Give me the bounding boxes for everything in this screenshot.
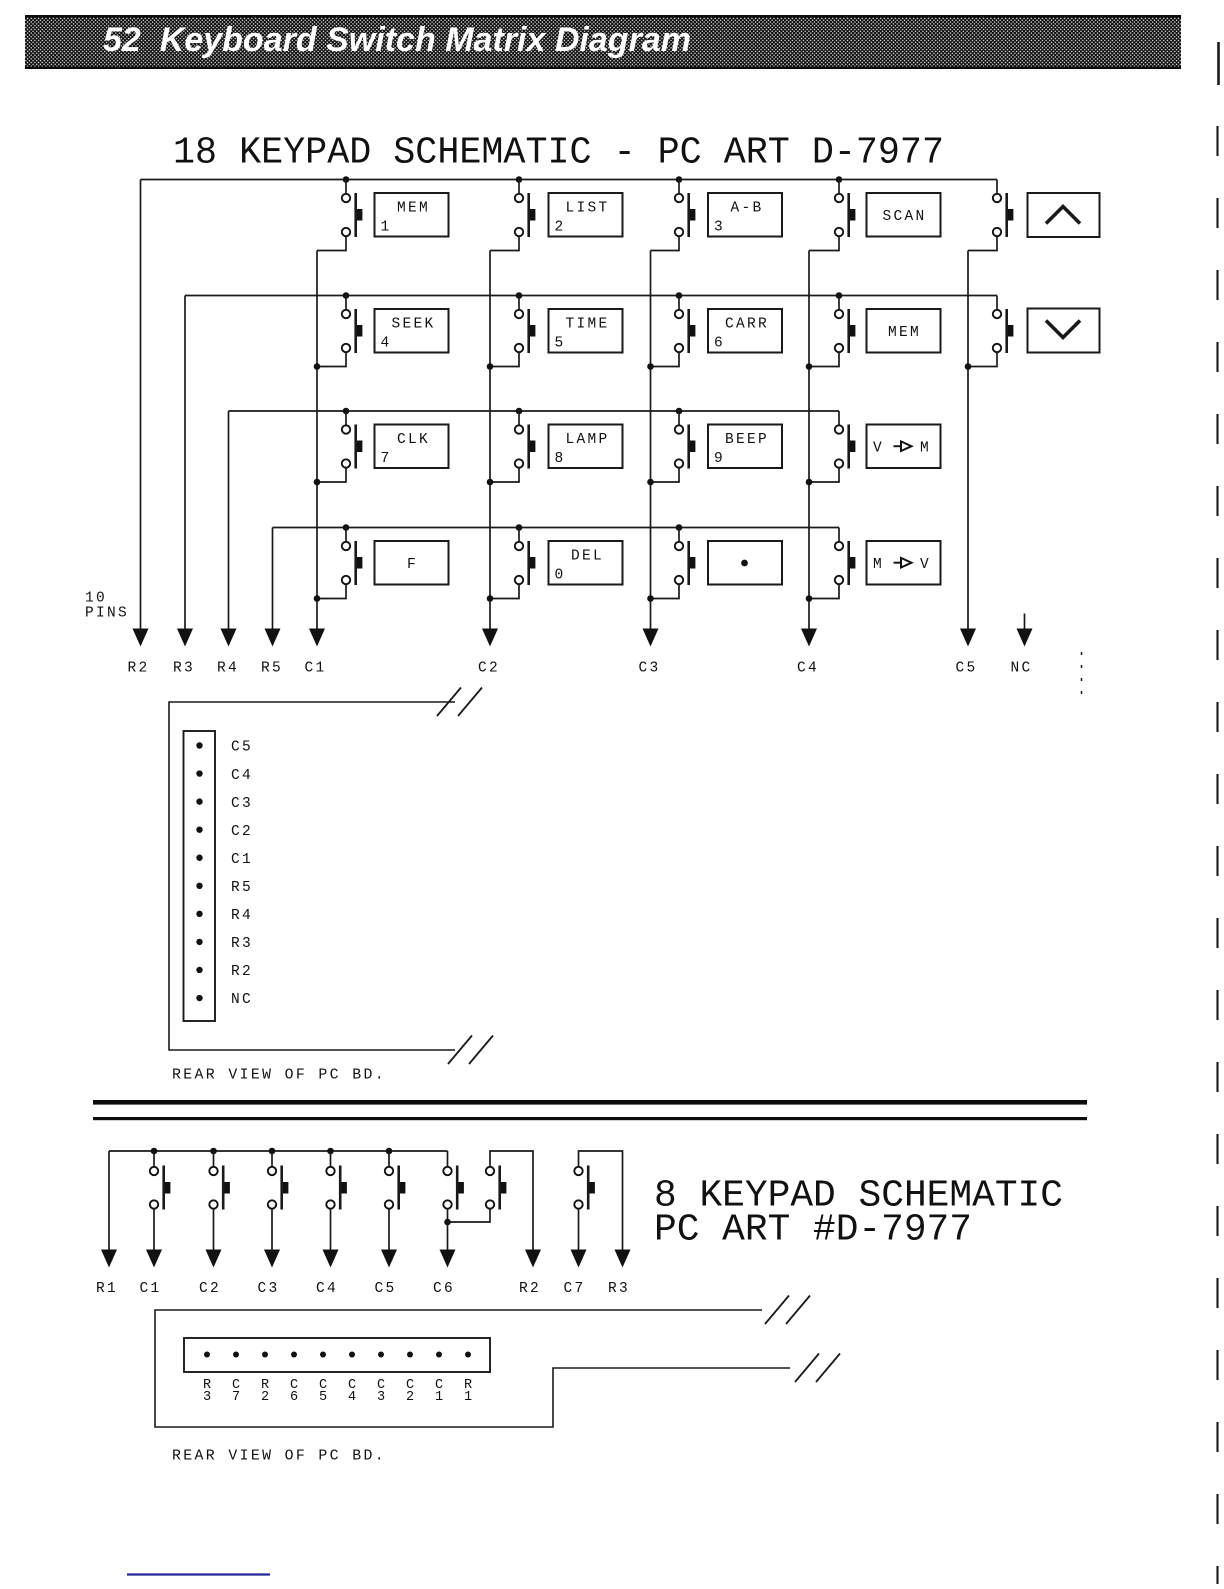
label box CLK 7 (375, 425, 449, 469)
switch S26 R3/C7 (574, 1166, 595, 1210)
connector J1 pin C2 (196, 826, 202, 832)
svg-text:R4: R4 (217, 661, 239, 677)
svg-text:BEEP: BEEP (725, 432, 769, 448)
switch S7 TIME-5 (487, 292, 536, 370)
connector J2 pin label C5 (319, 1378, 327, 1405)
label box SCAN row1 (867, 193, 941, 237)
wire C1 drop to pin (153, 1209, 155, 1251)
svg-text:4: 4 (381, 336, 392, 352)
header bar: 52 Keyboard Switch Matrix Diagram (25, 15, 1181, 69)
svg-text:LIST: LIST (565, 201, 609, 217)
svg-text:REAR VIEW OF PC BD.: REAR VIEW OF PC BD. (172, 1449, 386, 1465)
svg-text:R5: R5 (261, 661, 283, 677)
switch S13 BEEP-9 (647, 408, 695, 486)
svg-text:C1: C1 (231, 852, 253, 868)
label box BEEP 9 (708, 425, 782, 469)
switch S12 LAMP-8 (487, 408, 536, 486)
label box LAMP 8 (549, 425, 623, 469)
svg-text:C2: C2 (231, 824, 253, 840)
pin R5 arrow (265, 629, 281, 647)
switch S23 C5 (385, 1148, 406, 1210)
svg-text:C6: C6 (433, 1281, 455, 1297)
svg-text:3: 3 (203, 1390, 211, 1405)
connector J2 pin label R1 (464, 1378, 472, 1405)
label box chevron down (1028, 309, 1100, 353)
svg-text:SEEK: SEEK (391, 317, 435, 333)
svg-text:R2: R2 (231, 964, 253, 980)
switch S15 F (314, 524, 363, 602)
switch S6 SEEK-4 (314, 292, 363, 370)
wire column C5 (967, 251, 969, 630)
label box TIME 5 (549, 309, 623, 353)
connector J1 pin C4 (196, 770, 202, 776)
wire row bus R4 (229, 410, 840, 412)
svg-text:C2: C2 (478, 661, 500, 677)
connector J1 cable outline top (169, 702, 455, 1050)
switch S17 dot (647, 524, 695, 602)
connector J2 pin label R2 (261, 1378, 269, 1405)
svg-text:C3: C3 (231, 796, 253, 812)
svg-text:C4: C4 (797, 661, 819, 677)
svg-text:TIME: TIME (565, 317, 609, 333)
wire R1 drop to pin (108, 1151, 110, 1251)
svg-text:C3: C3 (638, 661, 660, 677)
connector J1 pin C5 (196, 742, 202, 748)
label box MEM 1 (375, 193, 449, 237)
label box SEEK 4 (375, 309, 449, 353)
wire C5 drop to pin (388, 1209, 390, 1251)
connector J2 body (184, 1338, 490, 1372)
connector J1 pin R4 (196, 911, 202, 917)
wire column C1 (316, 251, 318, 630)
wire S25 bottom to C6 (448, 1209, 491, 1223)
switch S19 C1 (150, 1148, 171, 1210)
wire row bus R5 (273, 527, 840, 529)
svg-text:C1: C1 (139, 1281, 161, 1297)
svg-text:1: 1 (435, 1390, 443, 1405)
note 10 PINS (85, 591, 129, 622)
connector J2 cable outline (155, 1310, 790, 1427)
pin NC arrow (1024, 614, 1026, 631)
connector J1 pin C3 (196, 798, 202, 804)
switch S3 A-B-3 (651, 176, 696, 250)
wire row bus R3 (185, 295, 997, 297)
wire column C4 (808, 251, 810, 630)
switch S1 MEM-1 (317, 176, 362, 250)
svg-text:R2: R2 (127, 661, 149, 677)
svg-text:C3: C3 (257, 1281, 279, 1297)
svg-text:4: 4 (348, 1390, 356, 1405)
svg-text:M: M (873, 557, 884, 573)
wire R3 drop to pin (184, 296, 186, 630)
svg-text:52 Keyboard Switch Matrix Dia: 52 Keyboard Switch Matrix Diagram (103, 21, 691, 59)
pin C4 arrow (8 keypad) (323, 1250, 339, 1268)
svg-text:V: V (873, 441, 884, 457)
switch S18 M>V (806, 528, 856, 602)
svg-text:C4: C4 (316, 1281, 338, 1297)
label box LIST 2 (549, 193, 623, 237)
svg-text:R4: R4 (231, 908, 253, 924)
label box F row4 (375, 541, 449, 585)
svg-text:PC ART #D-7977: PC ART #D-7977 (654, 1209, 972, 1252)
switch S2 LIST-2 (490, 176, 535, 250)
svg-text:PINS: PINS (85, 606, 129, 622)
pin C2 arrow (482, 629, 498, 647)
svg-text:10: 10 (85, 591, 107, 607)
svg-text:5: 5 (555, 336, 566, 352)
label box V->M (867, 425, 941, 469)
junction C6 foot (444, 1219, 451, 1226)
page edge marks right (1082, 42, 1219, 1584)
svg-text:R2: R2 (519, 1281, 541, 1297)
svg-text:C7: C7 (563, 1281, 585, 1297)
wire C4 drop to pin (330, 1209, 332, 1251)
wire R5 drop to pin (272, 528, 274, 630)
svg-text:R3: R3 (231, 936, 253, 952)
label box A-B 3 (708, 193, 782, 237)
svg-text:R1: R1 (96, 1281, 118, 1297)
connector J2 pin R3 (204, 1352, 210, 1358)
switch S11 CLK-7 (314, 408, 363, 486)
svg-text:7: 7 (232, 1390, 240, 1405)
svg-text:M: M (920, 441, 931, 457)
pin C5 arrow (960, 629, 976, 647)
connector J2 pin label C4 (348, 1378, 356, 1405)
connector J2 pin C5 (320, 1352, 326, 1358)
label box MEM row2 (867, 309, 941, 353)
switch S21 C3 (268, 1148, 289, 1210)
svg-text:8: 8 (555, 451, 566, 467)
wire C3 drop to pin (271, 1209, 273, 1251)
connector J2 pin C1 (436, 1352, 442, 1358)
pin R3 arrow (8 keypad) (615, 1250, 631, 1268)
pin R2 arrow (133, 629, 149, 647)
pin C7 arrow (8 keypad) (571, 1250, 587, 1268)
svg-text:NC: NC (231, 992, 253, 1008)
wire S26 top to R3 pin (579, 1151, 623, 1251)
svg-text:C2: C2 (199, 1281, 221, 1297)
pin C3 arrow (643, 629, 659, 647)
switch S4 SCAN (809, 176, 855, 250)
svg-text:2: 2 (261, 1390, 269, 1405)
pin C5 arrow (8 keypad) (381, 1250, 397, 1268)
svg-text:C5: C5 (231, 740, 253, 756)
pin C1 arrow (309, 629, 325, 647)
connector J2 pin C6 (291, 1352, 297, 1358)
connector J2 pin label C1 (435, 1378, 443, 1405)
svg-text:MEM: MEM (888, 325, 921, 341)
pin R4 arrow (221, 629, 237, 647)
cable break marks bottom (448, 1036, 472, 1065)
svg-text:SCAN: SCAN (882, 209, 926, 225)
blue pen mark (127, 1573, 270, 1575)
connector J1 pin R3 (196, 939, 202, 945)
svg-text:DEL: DEL (571, 549, 604, 565)
svg-text:5: 5 (319, 1390, 327, 1405)
wire C2 drop to pin (213, 1209, 215, 1251)
connector J2 pin R1 (465, 1352, 471, 1358)
wire S25 top to R2 pin (490, 1151, 533, 1251)
svg-text:3: 3 (714, 220, 725, 236)
switch S14 V>M (806, 411, 856, 485)
svg-text:LAMP: LAMP (565, 432, 609, 448)
svg-text:3: 3 (377, 1390, 385, 1405)
svg-text:C1: C1 (304, 661, 326, 677)
wire row bus R1 (8 keypad) (109, 1150, 448, 1152)
svg-text:CARR: CARR (725, 317, 769, 333)
switch S20 C2 (209, 1148, 230, 1210)
connector J2 pin C7 (233, 1352, 239, 1358)
wire column C2 (489, 251, 491, 630)
cable break marks top (437, 688, 461, 717)
switch S16 DEL-0 (487, 524, 536, 602)
svg-text:R3: R3 (173, 661, 195, 677)
svg-text:CLK: CLK (397, 432, 430, 448)
svg-text:2: 2 (555, 220, 566, 236)
connector J2 pin C4 (349, 1352, 355, 1358)
connector J1 body (184, 731, 216, 1021)
svg-text:V: V (920, 557, 931, 573)
pin R3 arrow (177, 629, 193, 647)
svg-text:6: 6 (714, 336, 725, 352)
svg-text:C5: C5 (955, 661, 977, 677)
switch S5 up-arrow (968, 180, 1013, 251)
svg-text:F: F (407, 557, 418, 573)
pin C1 arrow (8 keypad) (146, 1250, 162, 1268)
svg-text:7: 7 (381, 451, 392, 467)
cable break marks J2 top (765, 1296, 789, 1325)
connector J2 pin label C6 (290, 1378, 298, 1405)
wire C6 drop to pin (447, 1209, 449, 1251)
svg-text:C4: C4 (231, 768, 253, 784)
svg-text:6: 6 (290, 1390, 298, 1405)
switch S22 C4 (326, 1148, 347, 1210)
cable break marks J2 right (795, 1354, 819, 1383)
pin C4 arrow (801, 629, 817, 647)
pin C6 arrow (8 keypad) (440, 1250, 456, 1268)
switch S9 MEM (806, 292, 856, 370)
pin R1 arrow (8 keypad) (101, 1250, 117, 1268)
label box DEL 0 (549, 541, 623, 585)
svg-text:0: 0 (555, 568, 566, 584)
connector J2 pin label R3 (203, 1378, 211, 1405)
connector J2 pin C3 (378, 1352, 384, 1358)
svg-text:REAR VIEW OF PC BD.: REAR VIEW OF PC BD. (172, 1068, 386, 1084)
wire S26 bottom to C7 pin (578, 1209, 580, 1251)
svg-text:R3: R3 (608, 1281, 630, 1297)
svg-text:C5: C5 (374, 1281, 396, 1297)
svg-text:R5: R5 (231, 880, 253, 896)
wire row bus R2 (top) (141, 179, 998, 181)
svg-text:MEM: MEM (397, 201, 430, 217)
divider double rule (93, 1100, 1087, 1105)
pin C3 arrow (8 keypad) (264, 1250, 280, 1268)
connector J2 pin label C3 (377, 1378, 385, 1405)
connector J2 pin C2 (407, 1352, 413, 1358)
switch S10 down-arrow (965, 296, 1014, 370)
switch S25 R2/C6 (486, 1166, 507, 1210)
label box chevron up (1028, 193, 1100, 237)
pin R2 arrow (8 keypad) (525, 1250, 541, 1268)
connector J1 pin C1 (196, 855, 202, 861)
svg-text:1: 1 (381, 220, 392, 236)
connector J2 pin label C2 (406, 1378, 414, 1405)
connector J2 pin R2 (262, 1352, 268, 1358)
wire column C3 (650, 251, 652, 630)
wire R2 drop to pin (140, 180, 142, 630)
pin C2 arrow (8 keypad) (206, 1250, 222, 1268)
connector J2 pin label C7 (232, 1378, 240, 1405)
svg-text:18 KEYPAD SCHEMATIC - PC ART D: 18 KEYPAD SCHEMATIC - PC ART D-7977 (173, 132, 944, 175)
svg-text:1: 1 (464, 1390, 472, 1405)
switch S24 C6 (443, 1151, 464, 1210)
connector J1 pin R2 (196, 967, 202, 973)
label box M->V (867, 541, 941, 585)
svg-text:2: 2 (406, 1390, 414, 1405)
wire R4 drop to pin (228, 411, 230, 629)
switch S8 CARR-6 (647, 292, 695, 370)
svg-text:NC: NC (1010, 661, 1032, 677)
label box bullet dot (708, 541, 782, 585)
svg-text:9: 9 (714, 451, 725, 467)
label box CARR 6 (708, 309, 782, 353)
connector J1 pin R5 (196, 883, 202, 889)
svg-text:A-B: A-B (730, 201, 763, 217)
connector J1 pin NC (196, 995, 202, 1001)
